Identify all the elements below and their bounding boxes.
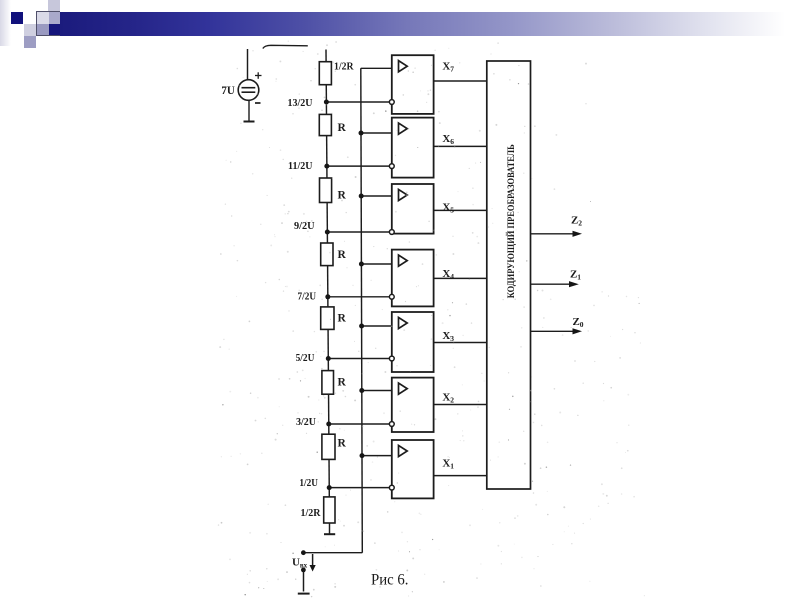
svg-text:4: 4: [450, 272, 454, 281]
svg-text:5: 5: [450, 206, 454, 215]
svg-text:U: U: [292, 557, 300, 569]
svg-text:1/2R: 1/2R: [334, 62, 354, 73]
svg-text:7/2U: 7/2U: [298, 292, 317, 303]
svg-text:1: 1: [577, 273, 581, 282]
svg-text:R: R: [338, 377, 347, 389]
svg-text:9/2U: 9/2U: [294, 221, 315, 232]
svg-text:R: R: [338, 438, 347, 450]
svg-text:Z: Z: [573, 316, 580, 328]
svg-text:7U: 7U: [221, 83, 235, 97]
svg-text:X: X: [442, 133, 450, 145]
svg-text:7: 7: [450, 65, 454, 74]
svg-text:R: R: [338, 249, 347, 261]
svg-text:6: 6: [450, 137, 454, 146]
svg-text:вх: вх: [300, 562, 308, 570]
svg-text:КОДИРУЮЩИЙ ПРЕОБРАЗОВАТЕЛЬ: КОДИРУЮЩИЙ ПРЕОБРАЗОВАТЕЛЬ: [505, 144, 517, 298]
svg-text:Z: Z: [571, 215, 578, 227]
svg-text:X: X: [442, 458, 450, 470]
svg-text:X: X: [442, 330, 450, 342]
svg-text:2: 2: [578, 219, 582, 228]
svg-text:13/2U: 13/2U: [288, 98, 313, 109]
svg-text:X: X: [442, 202, 450, 214]
svg-text:3: 3: [450, 334, 454, 343]
svg-text:11/2U: 11/2U: [288, 161, 313, 172]
svg-text:2: 2: [450, 396, 454, 405]
svg-text:1/2R: 1/2R: [301, 508, 321, 519]
svg-text:1/2U: 1/2U: [299, 478, 318, 489]
svg-text:5/2U: 5/2U: [296, 353, 315, 364]
svg-text:R: R: [338, 313, 347, 325]
svg-text:X: X: [442, 61, 450, 73]
svg-text:1: 1: [450, 462, 454, 471]
svg-text:3/2U: 3/2U: [296, 417, 316, 428]
svg-text:R: R: [338, 122, 347, 134]
svg-text:Рис 6.: Рис 6.: [371, 572, 409, 589]
svg-text:X: X: [442, 392, 450, 404]
svg-text:X: X: [442, 268, 450, 280]
svg-text:Z: Z: [570, 269, 577, 281]
svg-text:0: 0: [580, 320, 584, 329]
